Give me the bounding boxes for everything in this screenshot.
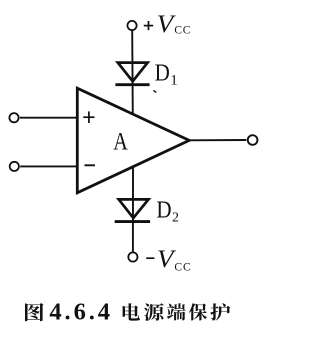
plus sign at noninverting input bbox=[83, 111, 94, 123]
input terminal - bbox=[10, 162, 19, 171]
-Vcc terminal bbox=[128, 252, 137, 261]
wire op-amp bottom edge to -Vcc bbox=[132, 167, 134, 253]
input wire + bbox=[20, 117, 79, 119]
plus sign of +Vcc label bbox=[144, 21, 153, 30]
caption char 护 (hu) bbox=[210, 303, 230, 320]
svg-text:1: 1 bbox=[170, 73, 178, 89]
svg-text:V: V bbox=[157, 11, 176, 38]
op-amp A bbox=[77, 88, 189, 193]
label D2 bbox=[156, 198, 179, 226]
label D1 bbox=[155, 61, 178, 89]
caption char 源 (yuan) bbox=[144, 303, 164, 321]
svg-text:CC: CC bbox=[174, 25, 191, 37]
minus sign at inverting input bbox=[85, 164, 96, 166]
caption char 保 (bao) bbox=[189, 303, 207, 320]
+Vcc terminal bbox=[127, 21, 136, 30]
input wire - bbox=[20, 165, 78, 167]
minus sign of -Vcc label bbox=[146, 257, 154, 259]
output wire bbox=[189, 139, 246, 141]
wire +Vcc to op-amp top edge bbox=[131, 30, 134, 116]
caption char 图 (tu) bbox=[25, 303, 44, 321]
diode D2 bbox=[115, 199, 150, 221]
svg-text:A: A bbox=[113, 127, 128, 156]
svg-text:D: D bbox=[155, 61, 170, 87]
caption char 端 (duan) bbox=[167, 303, 186, 320]
input terminal + bbox=[9, 113, 18, 122]
svg-text:2: 2 bbox=[172, 210, 179, 225]
caption char 电 (dian) bbox=[123, 303, 140, 320]
svg-text:4.6.4: 4.6.4 bbox=[49, 298, 113, 325]
+Vcc label V bbox=[157, 11, 191, 38]
svg-text:D: D bbox=[156, 198, 171, 224]
stray mark under D1 bbox=[153, 90, 156, 92]
-Vcc label V bbox=[157, 246, 192, 274]
svg-text:CC: CC bbox=[174, 261, 191, 273]
diode D1 bbox=[115, 63, 149, 85]
output terminal bbox=[248, 135, 258, 145]
